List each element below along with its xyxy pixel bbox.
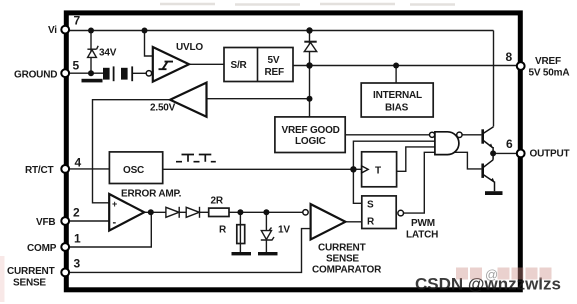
svg-text:5V: 5V xyxy=(268,55,280,66)
op-amp ERROR AMP xyxy=(109,189,181,231)
pin terminals xyxy=(61,26,524,277)
wire pin4 to OSC xyxy=(68,168,109,170)
svg-text:PWM: PWM xyxy=(411,218,435,229)
wire 5VREF line to pin 8 xyxy=(293,65,518,67)
svg-text:6: 6 xyxy=(506,137,513,151)
box S/R + 5V REF U2 xyxy=(224,48,293,82)
svg-text:INTERNAL: INTERNAL xyxy=(373,90,422,101)
ground symbol pin5 area xyxy=(82,79,103,83)
wire to 2R xyxy=(200,211,209,213)
svg-text:2.50V: 2.50V xyxy=(150,103,176,114)
svg-text:1V: 1V xyxy=(278,225,290,236)
svg-text:CURRENT: CURRENT xyxy=(318,243,366,254)
wire 2.50V out to error amp + xyxy=(93,100,171,203)
wire caps to UVLO bubble xyxy=(132,72,146,74)
svg-text:UVLO: UVLO xyxy=(176,42,203,53)
capacitor C2 xyxy=(121,66,132,81)
wire output node to pin 6 xyxy=(493,152,518,154)
svg-text:CURRENT: CURRENT xyxy=(7,266,55,277)
faint top scan artifacts xyxy=(160,3,455,6)
ground under R xyxy=(232,252,252,255)
watermark red blobs xyxy=(456,267,552,282)
wire 2.50V amp input xyxy=(207,98,310,100)
svg-text:VREF: VREF xyxy=(535,56,561,67)
svg-text:R: R xyxy=(219,225,227,236)
zener diode 1V xyxy=(261,228,274,241)
svg-text:34V: 34V xyxy=(99,48,117,59)
box OSC xyxy=(109,152,162,184)
wire ground run pin5 xyxy=(68,72,103,74)
wire pin2 to error amp - xyxy=(68,220,109,222)
wire comparator out to latch R xyxy=(345,221,361,223)
svg-text:BIAS: BIAS xyxy=(385,103,409,114)
capacitor C1 xyxy=(103,66,114,81)
ground under Q2 xyxy=(485,191,503,195)
svg-text:LATCH: LATCH xyxy=(406,230,438,241)
svg-text:SENSE: SENSE xyxy=(13,278,46,289)
svg-text:-: - xyxy=(113,216,117,228)
faint pink left-edge smudge xyxy=(0,256,5,302)
resistor 2R xyxy=(209,208,229,216)
svg-text:4: 4 xyxy=(75,156,82,170)
svg-text:GROUND: GROUND xyxy=(14,70,57,81)
zener diode 34V xyxy=(87,46,98,58)
svg-text:@: @ xyxy=(485,267,498,282)
wire gate out to Q1 base xyxy=(462,134,481,136)
svg-text:S: S xyxy=(367,200,374,211)
transistor Q1 xyxy=(483,127,494,154)
svg-text:RT/CT: RT/CT xyxy=(25,165,54,176)
wire clock down to latch S xyxy=(353,169,361,203)
diode to Vi rail xyxy=(304,42,316,52)
svg-text:SENSE: SENSE xyxy=(326,254,359,265)
op-amp UVLO comparator xyxy=(146,42,203,82)
svg-text:OUTPUT: OUTPUT xyxy=(530,149,570,160)
svg-text:3: 3 xyxy=(74,257,81,271)
wire error amp out xyxy=(144,211,166,213)
wire R branch xyxy=(239,212,241,252)
wire pin3 current sense xyxy=(68,229,311,273)
wire 2R to comparator bubble xyxy=(229,211,303,213)
wire Vi rail drop to Q1 collector xyxy=(493,31,495,127)
diode D3 xyxy=(186,207,199,218)
wire UVLO + input xyxy=(145,31,153,57)
box VREF GOOD LOGIC xyxy=(275,117,345,153)
wire Vi rail xyxy=(68,30,494,32)
wire zener 1V branch xyxy=(265,212,267,252)
wire VREF GOOD to gate bubble xyxy=(345,134,429,136)
svg-text:+: + xyxy=(112,199,117,209)
resistor R xyxy=(237,225,245,244)
svg-text:LOGIC: LOGIC xyxy=(295,136,326,147)
svg-text:2: 2 xyxy=(73,206,80,220)
svg-text:2R: 2R xyxy=(211,196,224,207)
transistor Q2 xyxy=(483,153,495,191)
svg-text:7: 7 xyxy=(74,14,81,28)
clock waveform symbol xyxy=(176,155,216,162)
svg-text:8: 8 xyxy=(506,50,513,64)
wire UVLO out to S/R xyxy=(189,63,224,65)
wire zener branch xyxy=(90,31,92,74)
diode D2 xyxy=(166,207,179,218)
svg-text:COMP: COMP xyxy=(27,243,57,254)
outer IC boundary box xyxy=(66,13,520,290)
svg-text:Vi: Vi xyxy=(48,25,57,36)
wire gate bottom to Q2 base xyxy=(456,152,481,169)
op-amp current sense comparator xyxy=(303,204,382,275)
latch S/R PWM U4 xyxy=(362,196,438,241)
svg-text:1: 1 xyxy=(74,232,81,246)
svg-text:T: T xyxy=(375,166,381,177)
op-amp 2.50V reference xyxy=(150,83,207,117)
gate NOR U5 xyxy=(430,132,463,155)
svg-text:ERROR AMP.: ERROR AMP. xyxy=(121,189,182,200)
svg-text:VFB: VFB xyxy=(36,217,55,228)
svg-text:S/R: S/R xyxy=(231,60,248,71)
svg-text:R: R xyxy=(367,217,375,228)
svg-text:VREF GOOD: VREF GOOD xyxy=(282,125,340,136)
wire diode link xyxy=(179,211,186,213)
svg-text:5V 50mA: 5V 50mA xyxy=(529,68,570,79)
svg-text:COMPARATOR: COMPARATOR xyxy=(312,265,382,276)
svg-text:OSC: OSC xyxy=(123,165,144,176)
wire pin1 COMP feedback xyxy=(68,212,151,247)
svg-text:REF: REF xyxy=(265,67,284,78)
wire latch out to gate bottom xyxy=(404,152,457,213)
wire diode rail xyxy=(309,31,311,117)
flip-flop T U3 xyxy=(362,152,397,187)
wire OSC clock run xyxy=(163,168,362,170)
wire clock up to gate input 2 xyxy=(353,141,435,169)
wire T output to gate input 3 xyxy=(397,147,435,171)
ground under zener 1V xyxy=(258,252,278,255)
box INTERNAL BIAS xyxy=(361,83,433,117)
wire internal bias drop xyxy=(395,66,397,84)
svg-text:5: 5 xyxy=(73,59,80,73)
